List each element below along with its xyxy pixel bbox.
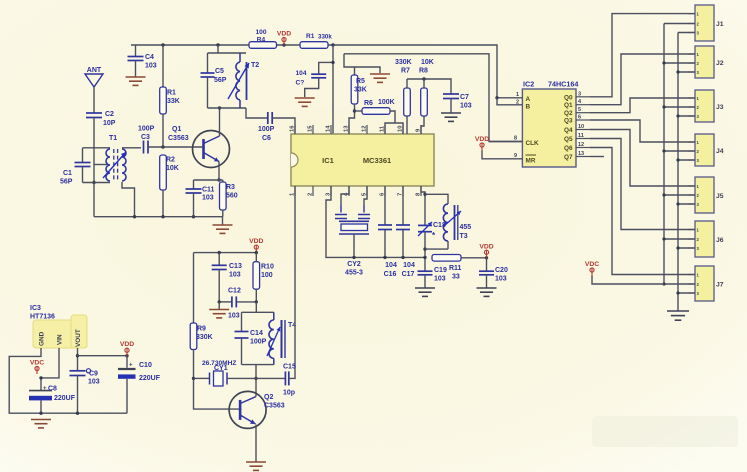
svg-text:IC2: IC2 (523, 80, 534, 89)
svg-text:C4: C4 (145, 54, 154, 61)
svg-text:100P: 100P (258, 126, 275, 133)
svg-text:220UF: 220UF (54, 395, 76, 402)
svg-text:103: 103 (229, 272, 241, 279)
svg-text:8: 8 (514, 136, 517, 142)
svg-text:Q3: Q3 (564, 118, 573, 125)
svg-text:J1: J1 (716, 21, 724, 28)
svg-text:Q4: Q4 (564, 127, 573, 134)
svg-text:CLK: CLK (526, 140, 540, 147)
svg-text:C3: C3 (141, 134, 150, 141)
svg-text:C16: C16 (384, 271, 397, 278)
svg-text:T3: T3 (460, 233, 468, 240)
svg-text:100P: 100P (138, 126, 155, 133)
svg-text:100P: 100P (250, 339, 267, 346)
svg-text:330K: 330K (395, 59, 412, 66)
svg-text:3: 3 (578, 91, 581, 97)
svg-text:+: + (129, 363, 133, 369)
svg-text:12: 12 (362, 126, 368, 132)
svg-text:220UF: 220UF (139, 375, 161, 382)
svg-text:74HC164: 74HC164 (548, 80, 578, 89)
svg-text:+: + (43, 386, 47, 392)
svg-text:10K: 10K (421, 59, 434, 66)
svg-text:10p: 10p (283, 390, 295, 397)
svg-text:1: 1 (516, 92, 519, 98)
svg-text:C20: C20 (495, 267, 508, 274)
svg-text:R3: R3 (226, 184, 235, 191)
svg-text:103: 103 (202, 195, 214, 202)
svg-text:R11: R11 (449, 265, 462, 272)
svg-text:R8: R8 (419, 68, 428, 75)
svg-text:R10: R10 (261, 264, 274, 271)
svg-text:56P: 56P (60, 179, 73, 186)
svg-text:12: 12 (578, 142, 584, 148)
svg-text:CY1: CY1 (214, 365, 228, 372)
svg-text:56P: 56P (214, 77, 227, 84)
svg-text:15: 15 (308, 125, 314, 132)
svg-text:R1: R1 (306, 33, 315, 40)
svg-text:330K: 330K (196, 334, 213, 341)
svg-text:GND: GND (39, 331, 46, 346)
svg-text:C14: C14 (250, 330, 263, 337)
svg-text:C2: C2 (105, 111, 114, 118)
svg-text:455-3: 455-3 (345, 270, 363, 277)
svg-text:10P: 10P (103, 120, 116, 127)
svg-text:C7: C7 (460, 94, 469, 101)
svg-text:Q2: Q2 (264, 394, 273, 401)
svg-text:C17: C17 (402, 271, 415, 278)
svg-text:C1: C1 (63, 170, 72, 177)
svg-text:104: 104 (403, 262, 415, 269)
svg-text:103: 103 (228, 313, 240, 320)
svg-text:C11: C11 (202, 187, 215, 194)
svg-text:IC1: IC1 (322, 156, 334, 165)
svg-text:T1: T1 (109, 135, 117, 142)
svg-text:ANT: ANT (87, 67, 102, 74)
svg-text:330k: 330k (318, 34, 332, 41)
svg-text:103: 103 (88, 379, 100, 386)
svg-text:J3: J3 (716, 104, 724, 111)
svg-text:103: 103 (460, 103, 472, 110)
svg-text:VOUT: VOUT (75, 329, 82, 347)
svg-text:100: 100 (261, 272, 273, 279)
svg-text:C?: C? (296, 80, 305, 87)
svg-text:100K: 100K (378, 99, 395, 106)
svg-text:Q1: Q1 (564, 102, 573, 109)
svg-text:R5: R5 (356, 78, 365, 85)
svg-text:C19: C19 (434, 267, 447, 274)
svg-text:103: 103 (145, 63, 157, 70)
svg-text:11: 11 (578, 133, 584, 139)
svg-text:Q6: Q6 (564, 145, 573, 152)
svg-text:103: 103 (434, 276, 446, 283)
svg-text:MR: MR (526, 158, 536, 165)
svg-text:C8: C8 (48, 386, 57, 393)
svg-text:33K: 33K (167, 98, 180, 105)
svg-text:R4: R4 (257, 37, 266, 44)
svg-text:14: 14 (326, 125, 332, 132)
svg-text:C13: C13 (229, 263, 242, 270)
svg-text:C6: C6 (262, 135, 271, 142)
svg-text:J7: J7 (716, 282, 724, 289)
svg-text:2: 2 (308, 193, 314, 196)
svg-text:C9: C9 (89, 371, 98, 378)
svg-text:103: 103 (495, 276, 507, 283)
svg-text:10K: 10K (166, 165, 179, 172)
svg-text:VDC: VDC (30, 360, 44, 367)
svg-text:6: 6 (578, 115, 581, 121)
svg-text:VDC: VDC (585, 261, 599, 268)
svg-text:33K: 33K (354, 87, 367, 94)
svg-text:R2: R2 (166, 157, 175, 164)
svg-text:16: 16 (290, 125, 296, 132)
svg-text:R6: R6 (364, 100, 373, 107)
svg-text:2: 2 (516, 100, 519, 106)
svg-text:Q0: Q0 (564, 94, 573, 101)
svg-text:5: 5 (578, 107, 581, 113)
svg-text:104: 104 (385, 262, 397, 269)
svg-text:13: 13 (578, 151, 584, 157)
svg-text:J2: J2 (716, 60, 724, 67)
svg-text:A: A (526, 96, 531, 103)
svg-text:455: 455 (460, 224, 472, 231)
svg-text:VIN: VIN (57, 334, 64, 345)
svg-text:C3563: C3563 (168, 135, 189, 142)
svg-text:R7: R7 (401, 68, 410, 75)
svg-text:R1: R1 (167, 90, 176, 97)
svg-text:C15: C15 (283, 364, 296, 371)
svg-text:Q1: Q1 (172, 126, 181, 133)
svg-text:VDD: VDD (249, 238, 263, 245)
svg-text:IC3: IC3 (30, 305, 41, 312)
svg-text:J5: J5 (716, 193, 724, 200)
svg-text:C3563: C3563 (264, 403, 285, 410)
svg-text:C5: C5 (215, 68, 224, 75)
svg-text:100: 100 (255, 29, 266, 36)
svg-text:J6: J6 (716, 237, 724, 244)
svg-text:C10: C10 (139, 362, 152, 369)
svg-text:C12: C12 (228, 288, 241, 295)
svg-text:Q5: Q5 (564, 136, 573, 143)
svg-text:104: 104 (296, 70, 307, 77)
svg-text:R9: R9 (197, 326, 206, 333)
svg-text:VDD: VDD (120, 341, 134, 348)
svg-text:J4: J4 (716, 148, 724, 155)
svg-text:T2: T2 (251, 62, 259, 69)
svg-text:MC3361: MC3361 (363, 156, 391, 165)
svg-text:560: 560 (226, 193, 238, 200)
svg-text:VDD: VDD (277, 31, 291, 38)
svg-text:VDD: VDD (479, 243, 493, 250)
svg-text:Q2: Q2 (564, 110, 573, 117)
svg-text:Q7: Q7 (564, 154, 573, 161)
svg-text:33: 33 (452, 274, 460, 281)
svg-text:B: B (526, 104, 531, 111)
svg-text:CY2: CY2 (347, 261, 361, 268)
svg-text:10: 10 (578, 124, 584, 130)
svg-text:VDD: VDD (475, 136, 489, 143)
svg-text:HT7136: HT7136 (30, 314, 55, 321)
svg-text:9: 9 (514, 153, 517, 159)
